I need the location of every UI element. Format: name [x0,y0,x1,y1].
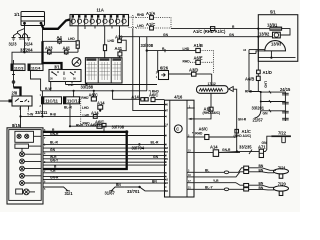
svg-text:RHD: RHD [76,123,84,127]
connector A4 [57,35,63,44]
svg-text:GN-R: GN-R [50,176,59,180]
svg-text:31/4: 31/4 [25,41,34,46]
svg-text:A1/C (RHD A1/C): A1/C (RHD A1/C) [193,29,226,34]
svg-text:R-W: R-W [45,87,52,91]
sensor 7/22 [262,130,291,151]
instrument cluster 5/1 [258,10,298,62]
comb connector 17/12 [197,74,229,93]
node 33/704 [132,143,145,150]
connector A1/D [257,61,272,75]
svg-text:GN-R: GN-R [238,117,247,121]
svg-text:1/1: 1/1 [14,12,20,17]
node 33/201 [252,91,286,113]
wire fuse to A39 [119,26,121,39]
wire 5/1 inner bottom [258,51,295,59]
wire 11C/3 feed [11,60,13,64]
svg-text:13/92: 13/92 [259,32,270,37]
fuse box 11A [70,8,129,26]
combination instrument 8/15 [7,123,43,204]
svg-text:A6/B: A6/B [245,77,254,82]
svg-text:BL: BL [205,169,209,173]
voltage stabilizer 13/91 [257,23,290,33]
svg-text:BN: BN [152,179,157,183]
fuse 11C/4 [14,60,44,71]
wire 33/208 to diode 6/26 [158,47,165,72]
connector A23 [45,46,53,56]
connector A6/C RHD option mid [81,90,98,125]
svg-text:7/22: 7/22 [278,130,287,135]
wire ECU to sensor 7/21 [195,168,244,177]
wire fuse drop to RHD box [104,26,106,45]
svg-text:BL-R: BL-R [151,141,159,145]
node 33/708 thick bus [43,125,128,170]
circled C symbol [174,125,182,133]
svg-text:11C/4: 11C/4 [31,66,40,70]
wire 33/204 horizontal run [12,52,78,63]
connector A6/C mid [149,89,165,101]
oxygen sensor 7/20 [249,182,289,196]
svg-text:33/211: 33/211 [35,110,48,115]
svg-text:11A: 11A [97,8,104,13]
svg-text:8/15: 8/15 [12,123,21,128]
svg-text:31/67: 31/67 [105,191,116,196]
connector pair 7/20 [244,184,249,192]
wire battery down to node 33/204 [24,33,26,52]
svg-text:GN: GN [163,33,169,37]
svg-text:A14: A14 [131,94,139,99]
wire ECU to sensor 7/20 [195,179,244,191]
connector A14 pair mid [112,90,149,101]
svg-text:GN-Y: GN-Y [50,159,59,163]
oxygen sensor 7/21 [249,164,289,178]
svg-text:BL-R: BL-R [50,141,58,145]
svg-text:(RHD A3/C): (RHD A3/C) [234,134,252,138]
svg-text:33/704: 33/704 [132,145,145,150]
ignition switch 3/1 [49,65,81,91]
battery 1/1 [14,12,45,26]
svg-text:21/57: 21/57 [253,118,264,123]
off-page arrow [229,87,234,92]
ground 31/67 [105,183,125,195]
svg-text:31/1: 31/1 [65,191,74,196]
connector 21/57 [253,111,269,123]
ECU 4/16 [165,94,195,197]
svg-text:11C/11: 11C/11 [45,99,58,104]
relay table box [85,58,122,83]
svg-text:5/1: 5/1 [270,10,276,15]
ECU pin numbers [165,104,168,193]
text A1/C (RHD A3/C) [234,129,252,138]
wire fuse drop to option box [77,26,79,41]
clock symbol [72,58,81,67]
wire 33/288 row [66,83,158,89]
svg-text:7/21: 7/21 [278,165,287,170]
svg-text:C: C [176,127,179,132]
svg-text:A1/D: A1/D [263,70,272,75]
wire row to ECU pin [70,125,165,127]
connector A1/C (RHD A3/C) [235,129,239,133]
fuse 11C/12 [64,91,81,126]
fuse 11C/3 [11,64,25,71]
svg-text:LHD: LHD [82,106,89,110]
node 33/701 [125,186,165,194]
relay 2/8 [0,88,32,128]
svg-text:4/16: 4/16 [174,94,183,99]
wire bundle 8/15 to ECU [43,132,165,184]
long vertical wire to ECU pin 2 [133,29,165,111]
connector A6/C RHD [83,120,105,129]
wire 11C/4 drop [31,71,41,91]
ECU pin stubs right [187,108,195,189]
wire off-page to node 33/235 [233,89,247,151]
svg-text:6/26: 6/26 [160,66,169,71]
svg-text:R: R [77,43,79,47]
svg-text:33/288: 33/288 [81,85,94,90]
svg-text:LHD: LHD [83,114,90,118]
option connector A6/C above bus [76,122,106,133]
wire to suppressor bank [245,50,261,111]
ECU right pin numbers [188,105,191,189]
connector LHD option box right [103,39,114,51]
diode 6/26 [156,66,169,80]
fuel gauge 13/92 [257,32,290,38]
svg-text:GN-R: GN-R [50,132,59,136]
node 33/204 [20,48,33,54]
node 33/208 [141,37,154,52]
long vertical wire to ECU pin 1 [140,37,165,105]
svg-text:11C/3: 11C/3 [14,66,23,70]
node 33/235 and connector A71 [219,145,267,158]
wire 6/26 to A3/D [169,73,192,75]
svg-text:2/8: 2/8 [12,91,18,96]
connector A14 right of ECU [194,93,220,119]
svg-text:RHD: RHD [137,13,145,17]
svg-text:GN: GN [263,111,269,115]
svg-text:33/201: 33/201 [252,106,265,111]
wire fuse drop stubs [85,26,112,29]
svg-text:24/15: 24/15 [280,87,291,92]
wire GN to fuel gauge [120,33,259,37]
svg-text:A6/C: A6/C [149,92,158,97]
connector A41 right [115,40,127,58]
connector A6/E with RHD label [183,56,214,65]
svg-text:LHD: LHD [183,47,190,51]
svg-text:BL-R: BL-R [64,106,72,110]
fuse 11C/11 [40,91,62,117]
connector LHD option box left [68,37,79,48]
svg-text:RHD: RHD [183,59,191,63]
ECU pin stubs left [165,105,167,191]
ground 31/4 [22,38,34,47]
svg-text:GN: GN [262,141,268,145]
temp gauge 13/93 [243,41,286,54]
wire 33/208 vertical lower [146,51,148,91]
wire A4 row [43,29,77,42]
ground 31/3 [9,38,23,47]
connector A1/B with LHD label [147,43,214,73]
connector A14 LHD [83,110,100,118]
svg-text:LHD: LHD [263,81,267,88]
svg-text:Y-R: Y-R [213,179,219,183]
svg-text:11C/12: 11C/12 [67,99,81,104]
svg-text:GN: GN [229,33,235,37]
pin stub arrow right [189,118,195,120]
thick wire battery to fuse box 11A [42,20,71,29]
connector A3/D [189,68,198,77]
svg-text:31/3: 31/3 [9,41,18,46]
pin numbers 8/15 [44,129,46,191]
wire battery negative branch [14,25,28,38]
ground 31/1 [43,187,73,196]
svg-text:A14: A14 [210,144,218,149]
suppressor unit 24/15 [280,87,291,121]
svg-text:LHD: LHD [68,37,75,41]
svg-text:BN: BN [259,186,264,190]
connector A6/C right of ECU [192,126,237,139]
svg-text:GN: GN [50,148,56,152]
wire 5/1 down feed [257,37,259,62]
svg-text:A1/B: A1/B [194,43,203,48]
svg-text:BN: BN [259,168,264,172]
connector pair 7/21 [244,166,249,173]
connector A14 LHD option mid [82,101,105,112]
svg-text:R-B: R-B [50,113,56,117]
connector A6/B [245,74,267,89]
svg-text:LHD: LHD [108,39,115,43]
connector A39 [115,35,123,43]
connector A14 lower right of ECU [195,144,240,156]
svg-text:GN: GN [153,155,159,159]
wire thick feed to ignition switch [43,41,62,69]
svg-text:Y-W: Y-W [27,113,34,117]
node 33/211 wire [19,110,164,118]
svg-text:33/708: 33/708 [112,125,125,130]
svg-text:BN: BN [116,183,121,187]
wire 11C/3 to relay 2/8 [12,71,15,88]
svg-text:33/235: 33/235 [239,145,252,150]
wire row to 11C/11 [41,87,147,92]
connector A41 [63,46,71,56]
svg-text:BL-Y: BL-Y [205,186,213,190]
connector A1/A with RHD label [129,11,172,29]
svg-text:33/701: 33/701 [127,189,140,194]
svg-text:3/1: 3/1 [54,65,60,70]
connector A1/C with LHD label [129,17,172,30]
svg-text:13/93: 13/93 [271,42,282,47]
svg-text:*) RHD: *) RHD [192,131,203,135]
svg-text:Y-R: Y-R [50,169,56,173]
wire to instrument cluster feed [171,25,258,34]
